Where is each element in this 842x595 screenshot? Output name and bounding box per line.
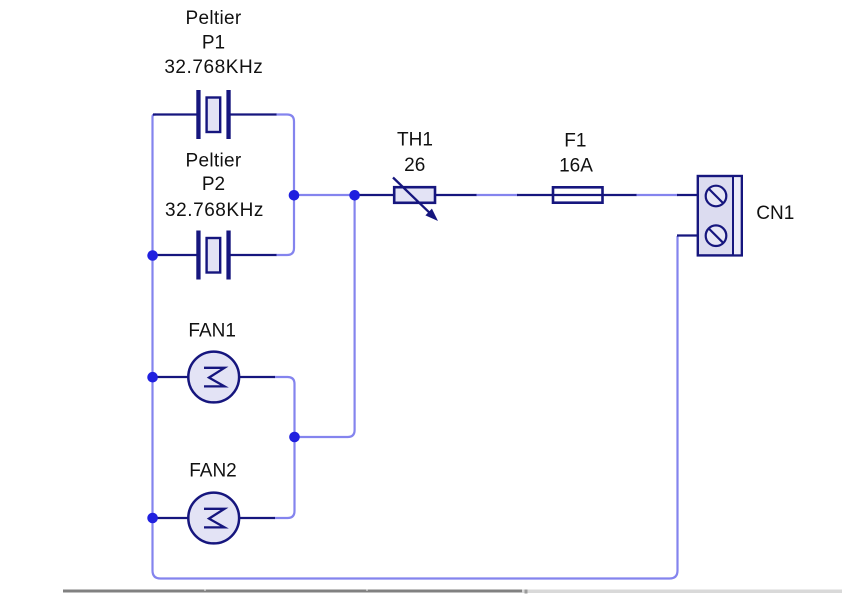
junction node A [289,190,300,201]
wire TH1 to F1 [476,194,518,196]
svg-text:P2: P2 [202,174,225,195]
svg-text:F1: F1 [564,130,586,151]
thermistor TH1 leads [356,194,477,196]
junction node P2-left [147,250,158,261]
junction node B [349,190,360,201]
svg-text:CN1: CN1 [756,203,794,224]
svg-text:FAN1: FAN1 [188,320,236,341]
wire P2 right up to node A [276,199,294,255]
wire FAN1 right down to fan junction [275,377,295,437]
svg-text:16A: 16A [559,155,593,176]
scrollbar notch [525,590,528,594]
thermistor TH1 [393,178,438,222]
fuse F1 label [559,130,593,176]
svg-text:32.768KHz: 32.768KHz [165,200,264,221]
connector CN1 [698,176,742,255]
svg-text:P1: P1 [202,33,225,54]
wire P1 right to node A [276,115,294,192]
crystal P2 label [165,150,264,221]
motor FAN1 [188,352,239,403]
crystal P1 label [164,8,263,78]
motor FAN2 [188,493,239,544]
junction fan node [289,432,300,443]
wire F1 to CN1 [636,194,678,196]
svg-text:FAN2: FAN2 [189,461,237,482]
wire node B down to fan junction [295,195,355,437]
svg-text:TH1: TH1 [397,130,433,151]
svg-text:Peltier: Peltier [186,150,242,171]
bar separator notch 1 [204,590,206,592]
crystal P1 leads [153,113,277,115]
svg-text:Peltier: Peltier [186,8,242,29]
window bottom edge dark bar [63,590,522,593]
wire node A to node B [294,194,355,196]
crystal P2 leads [155,254,277,256]
thermistor TH1 label [397,130,433,176]
svg-text:32.768KHz: 32.768KHz [164,57,263,78]
connector CN1 leads [677,195,698,236]
wire left rail and bottom return loop [153,115,678,579]
motor FAN2 leads [155,517,275,519]
crystal P2 [196,231,230,280]
window bottom scrollbar track [522,590,842,594]
motor FAN1 leads [155,376,275,378]
svg-text:26: 26 [404,155,425,176]
junction node FAN1-left [147,372,158,383]
fuse F1 [553,187,603,202]
junction node FAN2-left [147,513,158,524]
fuse F1 leads [517,194,637,196]
bar separator notch 2 [366,590,368,592]
wire FAN2 right up to fan junction [275,439,295,518]
crystal P1 [196,90,230,139]
